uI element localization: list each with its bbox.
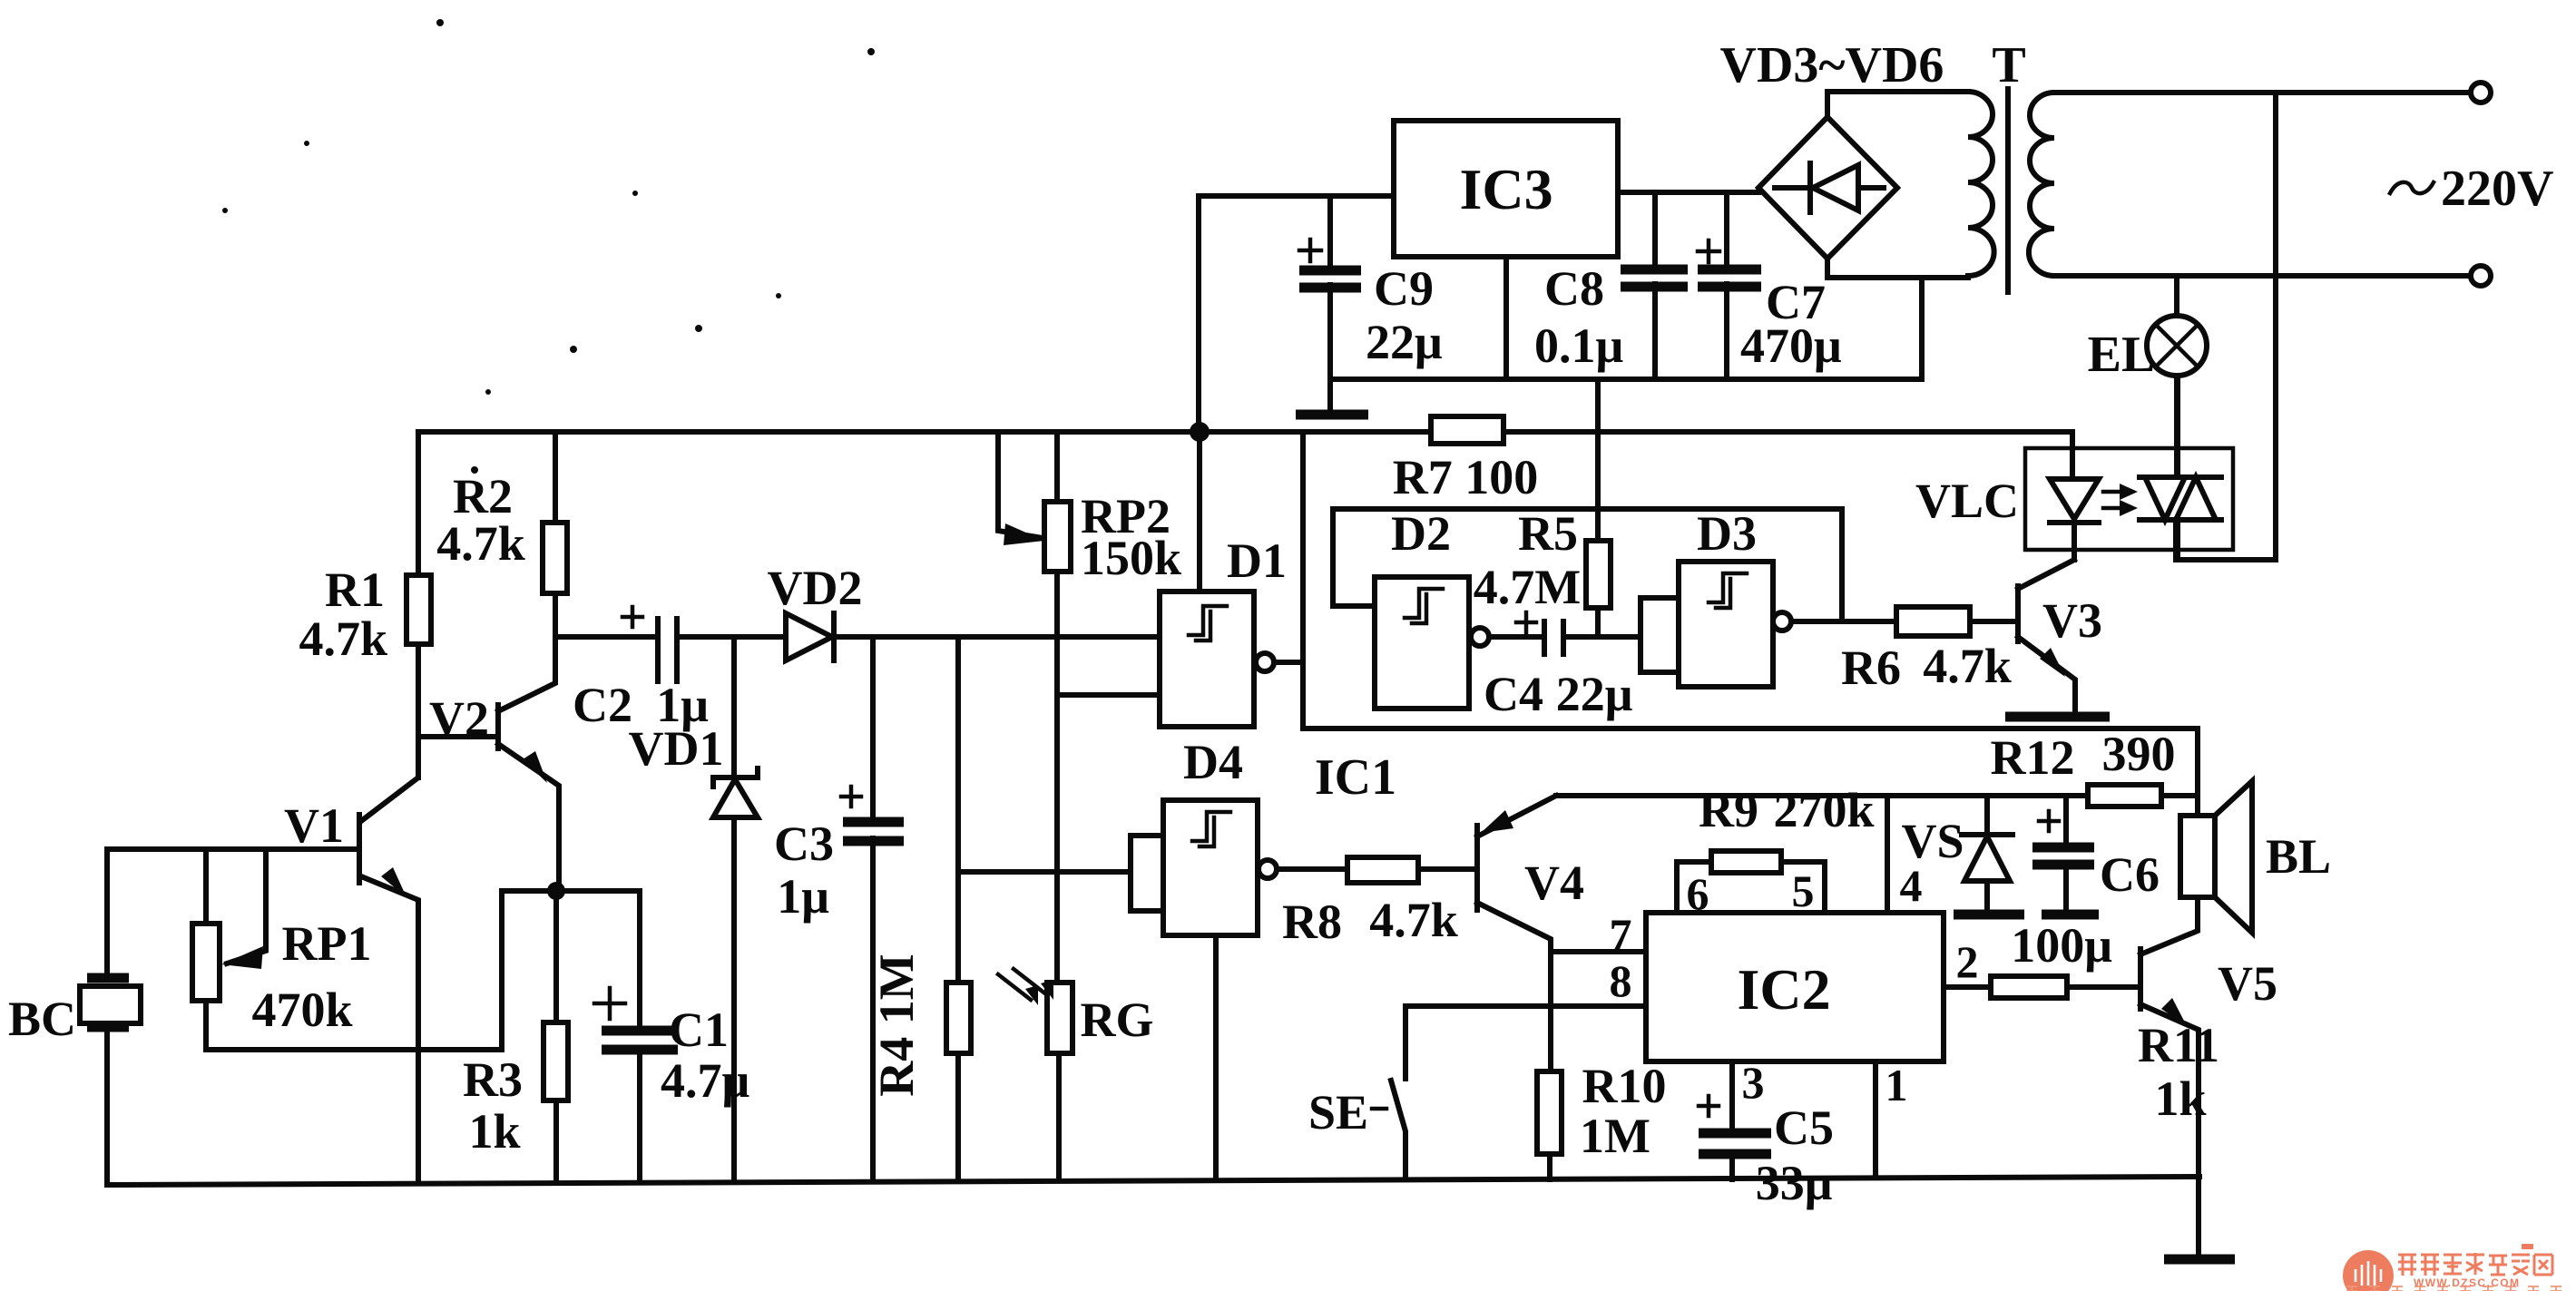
capacitor C9	[1299, 196, 1443, 379]
zener diode VD1	[629, 637, 759, 1182]
svg-text:C3: C3	[774, 817, 834, 871]
svg-text:220V: 220V	[2441, 161, 2553, 217]
svg-text:VD1: VD1	[629, 721, 724, 776]
svg-text:R9: R9	[1699, 783, 1758, 837]
wire D1 top from node	[1197, 432, 1202, 592]
wire IC3 gnd pin	[1503, 257, 1509, 379]
transistor V4	[1477, 796, 1584, 1071]
wire bus to IC1 box left drop	[1300, 432, 1306, 729]
transistor V2	[418, 637, 559, 891]
wire R4 to D4 input	[958, 869, 1131, 875]
svg-text:470k: 470k	[251, 983, 352, 1037]
svg-text:1k: 1k	[468, 1104, 520, 1159]
wire IC2 pin7	[1551, 909, 1646, 960]
wire IC2 pin4	[1887, 796, 1923, 913]
schmitt trigger D3	[1641, 506, 1791, 687]
svg-text:8: 8	[1610, 955, 1632, 1006]
svg-text:R5: R5	[1518, 506, 1578, 561]
svg-text:4.7k: 4.7k	[1369, 893, 1458, 947]
resistor R1	[299, 562, 431, 666]
lamp EL	[2088, 276, 2207, 477]
ground for V5	[2164, 1255, 2235, 1265]
wire IC1 bottom rail	[1303, 729, 2198, 816]
svg-text:1M: 1M	[1580, 1109, 1650, 1163]
diode VS	[1901, 796, 2024, 914]
speaker BL	[2180, 781, 2331, 933]
resistor R9 loop pins 6 5	[1677, 783, 1875, 919]
resistor R7	[1393, 416, 1539, 504]
svg-text:VD2: VD2	[768, 561, 863, 615]
svg-text:R12: R12	[1991, 730, 2075, 785]
svg-text:150k: 150k	[1081, 531, 1181, 585]
wire IC3 right pin to bridge	[1618, 190, 1758, 195]
svg-text:R11: R11	[2138, 1018, 2219, 1072]
svg-text:R2: R2	[453, 469, 513, 523]
node power gnd rail	[1330, 278, 1922, 379]
potentiometer RP2	[998, 432, 1181, 983]
transistor V5	[2140, 897, 2277, 1259]
resistor R8	[1277, 857, 1474, 949]
label 220V	[2390, 161, 2553, 217]
resistor R11	[1991, 976, 2219, 1126]
svg-text:R10: R10	[1582, 1059, 1667, 1113]
amplifier IC2	[1646, 913, 1944, 1061]
svg-text:C9: C9	[1374, 261, 1434, 316]
wire R1 top branch	[416, 432, 421, 778]
transistor V1	[107, 737, 418, 1182]
svg-text:IC2: IC2	[1737, 957, 1830, 1022]
node VCC top bus	[418, 429, 2072, 435]
svg-text:T: T	[1992, 37, 2025, 93]
svg-text:RG: RG	[1081, 993, 1154, 1047]
wire IC2 pin3 C5	[1732, 1057, 1765, 1179]
resistor R5	[1474, 379, 1611, 637]
node ground rail bottom	[107, 1177, 2199, 1185]
optocoupler VLC	[1915, 376, 2233, 560]
capacitor C1	[556, 891, 749, 1181]
wire IC2 pin2	[1944, 936, 1991, 987]
svg-text:V3: V3	[2042, 593, 2102, 648]
resistor R4	[869, 637, 971, 1180]
svg-text:V2: V2	[429, 691, 489, 746]
svg-text:22μ: 22μ	[1556, 667, 1633, 721]
wire mains bottom	[2054, 266, 2491, 286]
svg-text:100μ: 100μ	[2011, 918, 2112, 973]
svg-text:R6: R6	[1841, 641, 1901, 695]
svg-text:7: 7	[1610, 909, 1632, 960]
svg-text:V5: V5	[2218, 956, 2277, 1011]
label IC1	[1315, 749, 1396, 806]
svg-text:1μ: 1μ	[777, 869, 829, 924]
capacitor C3	[774, 637, 904, 1181]
svg-text:C8: C8	[1544, 261, 1604, 316]
wire IC2 pin8	[1406, 955, 1646, 1006]
wire mains top	[2054, 83, 2491, 103]
svg-text:V4: V4	[1524, 856, 1584, 910]
capacitor C6	[2011, 796, 2160, 973]
svg-text:D4: D4	[1183, 735, 1243, 789]
svg-text:0.1μ: 0.1μ	[1534, 318, 1623, 373]
svg-text:RP1: RP1	[282, 916, 372, 971]
ground for V3	[2005, 712, 2110, 722]
svg-text:C6: C6	[2100, 847, 2160, 902]
transformer T	[1968, 37, 2054, 292]
svg-text:D2: D2	[1391, 506, 1451, 561]
wire RP2 to D1 lower input	[1059, 692, 1160, 698]
svg-text:C1: C1	[669, 1002, 729, 1057]
transistor V3	[2018, 560, 2102, 713]
svg-text:R8: R8	[1282, 895, 1342, 949]
resistor R10	[1537, 1059, 1667, 1179]
svg-text:VS: VS	[1901, 814, 1964, 868]
svg-text:C5: C5	[1774, 1100, 1834, 1155]
svg-text:C2: C2	[573, 678, 632, 732]
svg-text:270k: 270k	[1773, 783, 1874, 837]
regulator IC3	[1394, 121, 1618, 257]
node bus junction dot	[1190, 422, 1210, 442]
svg-text:470μ: 470μ	[1740, 318, 1842, 373]
capacitor C8	[1534, 192, 1688, 379]
svg-text:2: 2	[1956, 936, 1979, 987]
svg-text:D1: D1	[1227, 533, 1287, 588]
svg-text:VD3~VD6: VD3~VD6	[1720, 37, 1944, 93]
wire R2 top branch	[553, 432, 558, 637]
svg-text:EL: EL	[2088, 327, 2156, 383]
svg-text:390: 390	[2102, 727, 2176, 781]
wire node to IC3 left pin	[1199, 196, 1394, 432]
svg-text:22μ: 22μ	[1366, 315, 1443, 369]
resistor R6	[1790, 607, 2018, 695]
wire IC2 pin1	[1876, 1060, 1908, 1178]
resistor R3	[463, 891, 568, 1181]
capacitor C2	[555, 607, 734, 732]
svg-text:4.7M: 4.7M	[1474, 560, 1581, 614]
svg-text:IC3: IC3	[1459, 157, 1552, 221]
svg-text:D3: D3	[1697, 506, 1757, 561]
schmitt trigger D2	[1375, 506, 1489, 709]
switch SE	[1308, 1006, 1406, 1179]
svg-text:5: 5	[1792, 866, 1815, 916]
svg-text:3: 3	[1742, 1057, 1765, 1108]
watermark logo	[2343, 1244, 2561, 1291]
svg-text:IC1: IC1	[1315, 749, 1396, 806]
svg-text:BC: BC	[8, 992, 76, 1046]
svg-text:R1: R1	[325, 562, 385, 617]
ground for C9	[1296, 379, 1368, 415]
svg-text:R7 100: R7 100	[1393, 450, 1539, 504]
capacitor C5	[1699, 1096, 1834, 1210]
svg-text:33μ: 33μ	[1756, 1156, 1833, 1210]
bridge rectifier VD3~VD6	[1720, 37, 1968, 278]
piezo transducer BC	[8, 849, 141, 1182]
resistor R2	[436, 469, 567, 593]
svg-text:R4 1M: R4 1M	[869, 954, 924, 1096]
svg-text:BL: BL	[2266, 829, 2331, 884]
capacitor C4	[1484, 612, 1641, 721]
wire V4 emitter supply rail	[1556, 793, 2198, 798]
scan noise specks	[222, 19, 875, 474]
resistor R12	[1991, 727, 2176, 807]
svg-text:V1: V1	[284, 798, 344, 853]
svg-text:1: 1	[1885, 1060, 1908, 1110]
schmitt trigger D4	[1131, 735, 1277, 1179]
photoresistor RG	[998, 969, 1154, 1180]
potentiometer RP1	[192, 849, 549, 1050]
svg-text:C4: C4	[1484, 667, 1543, 721]
svg-text:4.7k: 4.7k	[299, 611, 387, 666]
svg-text:6: 6	[1687, 868, 1709, 919]
svg-text:4.7k: 4.7k	[1923, 639, 2012, 693]
node emitter junction dot	[547, 882, 565, 900]
wire mains hot vertical	[2176, 93, 2276, 560]
schmitt trigger D1	[1160, 533, 1303, 727]
svg-text:4.7k: 4.7k	[436, 516, 525, 571]
svg-text:R3: R3	[463, 1052, 523, 1107]
wire feedback loop	[1333, 509, 1842, 621]
svg-text:VLC: VLC	[1915, 474, 2019, 528]
svg-text:SE: SE	[1308, 1085, 1368, 1139]
diode VD2	[734, 561, 1160, 660]
capacitor C7	[1698, 192, 1842, 379]
